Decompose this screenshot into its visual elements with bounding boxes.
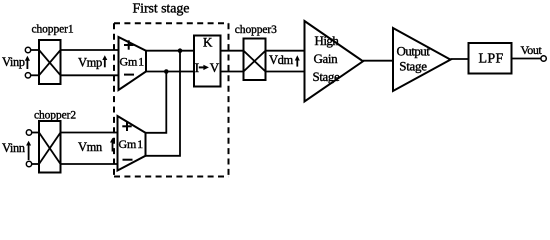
svg-text:I: I	[195, 60, 199, 75]
svg-text:Vdm: Vdm	[269, 53, 293, 67]
junction upper rail	[178, 48, 183, 53]
svg-text:V: V	[210, 60, 220, 75]
I to V arrow	[199, 66, 204, 68]
Gm1 top minus input	[124, 74, 134, 76]
amplifier High Gain Stage	[305, 21, 364, 102]
chopper3 box	[244, 39, 266, 81]
wire K box to chopper3 upper	[221, 50, 244, 52]
wire Gm1 top output rail lower	[146, 71, 194, 73]
wire Gm1 bottom top-output link	[146, 72, 167, 133]
node Vdm arrow	[296, 60, 298, 67]
svg-text:Stage: Stage	[399, 59, 427, 74]
wire HGS to Output Stage	[363, 60, 393, 62]
First stage dashed box	[114, 23, 229, 176]
svg-text:Gain: Gain	[314, 51, 339, 66]
svg-text:First stage: First stage	[133, 2, 190, 17]
Gm1 top plus input	[124, 40, 134, 49]
chopper1 box	[39, 40, 61, 84]
junction lower rail	[164, 69, 169, 74]
wire LPF to Vout	[512, 58, 541, 60]
terminal Vout	[541, 56, 546, 61]
node Vmn arrow	[112, 142, 114, 152]
Gm1 bottom plus input	[122, 122, 131, 131]
node Vmp arrow	[104, 59, 106, 67]
svg-text:K: K	[203, 35, 213, 50]
wire chopper1 to Gm1 bottom	[61, 74, 119, 76]
svg-text:LPF: LPF	[479, 51, 504, 66]
svg-text:Vinn: Vinn	[2, 141, 26, 155]
K / I-V converter box	[194, 36, 221, 87]
svg-text:Output: Output	[397, 44, 431, 59]
svg-text:High: High	[315, 33, 340, 48]
svg-text:Gm1: Gm1	[119, 137, 144, 151]
wire Output Stage to LPF	[451, 58, 469, 60]
chopper1 cross	[39, 50, 61, 75]
wire Vinn+ to chopper2	[32, 132, 39, 134]
wire chopper3 to HGS upper	[266, 50, 305, 52]
wire chopper2 to Gm1b top	[61, 132, 118, 134]
svg-text:Vinp: Vinp	[2, 55, 25, 69]
amplifier Output Stage	[393, 28, 451, 91]
wire Gm1 top output rail upper	[146, 50, 194, 52]
terminal Vinn+	[26, 130, 31, 135]
wire Vinn- to chopper2	[32, 163, 39, 165]
wire chopper1 to Gm1 top	[61, 49, 119, 51]
wire chopper3 to HGS lower	[266, 71, 305, 73]
node Vinn polarity arrow	[28, 145, 30, 161]
svg-text:chopper2: chopper2	[34, 110, 76, 122]
svg-text:chopper1: chopper1	[32, 24, 74, 36]
svg-text:Stage: Stage	[313, 69, 341, 84]
svg-text:chopper3: chopper3	[235, 24, 277, 36]
terminal Vinn-	[26, 161, 31, 166]
op-amp Gm1 (top) body	[119, 37, 147, 90]
svg-text:Vout: Vout	[521, 43, 543, 57]
wire Vinp+ to chopper1	[31, 49, 39, 51]
chopper2 box	[39, 121, 61, 173]
wire chopper2 to Gm1b bottom	[61, 163, 118, 165]
svg-text:Gm1: Gm1	[120, 55, 145, 69]
Gm1 bottom minus input	[123, 159, 133, 161]
chopper3 cross	[244, 51, 266, 72]
wire Vinp- to chopper1	[31, 74, 39, 76]
svg-text:Vmp: Vmp	[78, 55, 102, 69]
terminal Vinp+	[25, 47, 30, 52]
chopper2 cross	[39, 133, 61, 165]
LPF box	[469, 43, 512, 74]
svg-text:Vmn: Vmn	[78, 140, 103, 154]
node Vinp polarity arrow	[26, 60, 28, 69]
op-amp Gm1 (bottom) body	[118, 116, 146, 171]
wire K box to chopper3 lower	[221, 71, 244, 73]
terminal Vinp-	[25, 73, 30, 78]
wire Gm1 bottom bottom-output link	[146, 51, 181, 156]
